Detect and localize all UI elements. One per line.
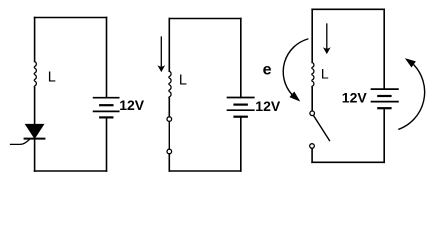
wire: circuit 2 top side <box>169 18 241 20</box>
switch S (closed) bottom terminal node <box>167 149 172 154</box>
wire: circuit 3 left side (coil to switch top terminal) <box>311 88 313 112</box>
wire: circuit 3 left side upper (corner to coil) <box>311 9 313 62</box>
wire: circuit 2 bottom side <box>169 170 241 172</box>
wire: circuit 1 left side upper (corner to coil) <box>34 18 36 62</box>
wire: circuit 1 bottom side <box>35 170 107 172</box>
battery B2 plate: lower long (positive) <box>228 109 254 111</box>
wire: circuit 1 right side lower (corner to battery) <box>106 117 108 171</box>
wire: circuit 3 right side lower (corner to battery) <box>383 108 385 162</box>
battery B3 plate: lower long (positive) <box>372 101 398 103</box>
switch S (open) top terminal node <box>310 111 315 116</box>
emf direction arc arrowhead (pointing up-left) <box>406 59 415 67</box>
wire: circuit 1 left side middle (coil to thyristor) <box>34 88 36 125</box>
switch S (closed) blade wire between terminals <box>168 122 170 150</box>
svg-text:L: L <box>179 73 187 89</box>
current arrow i (circuit 3) head <box>324 48 330 54</box>
svg-text:L: L <box>321 66 329 82</box>
battery B1 plate: lower long (positive) <box>94 110 119 112</box>
thyristor D1 gate lead <box>11 140 30 145</box>
inductor L (circuit 1 coil) <box>34 62 36 88</box>
wire: circuit 1 left side lower (thyristor to corner) <box>34 139 36 171</box>
wire: circuit 3 top side <box>312 8 384 10</box>
thyristor D1 cathode bar <box>25 138 45 140</box>
battery B3 plate: upper short (negative) <box>378 95 390 97</box>
battery B1 plate: top long (positive) <box>94 97 119 99</box>
inductor L (circuit 2 coil) <box>169 71 171 98</box>
battery B1 plate: bottom short (negative) <box>100 116 112 118</box>
wire: circuit 1 top side <box>35 17 107 19</box>
current arrow i (circuit 2) stem <box>160 37 162 66</box>
wire: circuit 2 left side lower (switch to corner) <box>168 154 170 171</box>
thyristor D1 anode triangle <box>26 124 44 138</box>
battery B1 plate: upper short (negative) <box>100 104 112 106</box>
wire: circuit 2 right side lower (corner to battery) <box>240 117 242 171</box>
emf direction arc (right of circuit 3) <box>399 65 425 129</box>
battery B3 plate: bottom short (negative) <box>378 107 390 109</box>
wire: circuit 3 right side upper (battery to corner) <box>383 9 385 89</box>
battery B2 plate: bottom short (negative) <box>235 116 247 118</box>
battery B2 plate: top long (positive) <box>228 97 254 99</box>
emf direction arc arrowhead (pointing down-right at switch) <box>290 92 299 101</box>
switch S (open) bottom terminal node <box>310 144 315 149</box>
battery B2 plate: upper short (negative) <box>235 103 247 105</box>
wire: circuit 2 right side upper (battery to corner) <box>240 19 242 98</box>
svg-text:12V: 12V <box>255 98 281 114</box>
current arrow i (circuit 2) head <box>158 66 164 72</box>
wire: circuit 1 right side upper (battery to corner) <box>106 18 108 98</box>
switch S (closed) top terminal node <box>167 117 172 122</box>
svg-text:12V: 12V <box>119 97 145 113</box>
svg-text:12V: 12V <box>342 90 368 106</box>
wire: circuit 3 bottom side <box>312 161 384 163</box>
battery B3 plate: top long (positive) <box>372 88 398 90</box>
wire: circuit 3 left side lower (switch to corner) <box>311 148 313 162</box>
inductor L (circuit 3 coil) <box>312 63 314 88</box>
wire: circuit 2 left side (coil to switch top terminal) <box>168 98 170 117</box>
svg-text:e: e <box>263 62 272 79</box>
switch S (open) blade <box>314 116 330 140</box>
emf direction arc (left of circuit 3) <box>283 39 307 94</box>
svg-text:L: L <box>48 69 56 85</box>
wire: circuit 2 left side upper (corner to coil) <box>168 19 170 72</box>
current arrow i (circuit 3) stem <box>326 24 328 49</box>
